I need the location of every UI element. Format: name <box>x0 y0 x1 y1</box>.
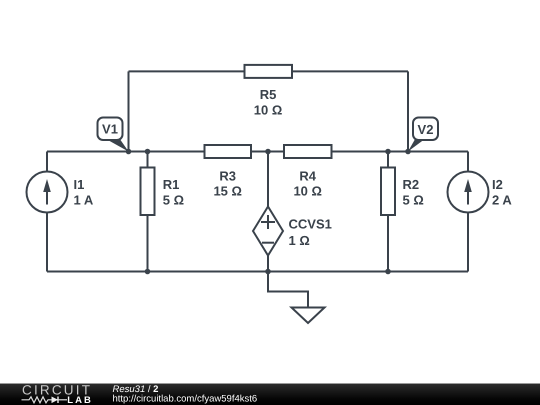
label CCVS1 value <box>289 217 332 249</box>
label R5 value <box>254 87 283 118</box>
node label V2 <box>408 118 438 152</box>
wire R2 branch <box>387 152 389 272</box>
svg-text:CCVS1: CCVS1 <box>289 217 332 232</box>
node V2 dot <box>405 149 411 155</box>
label R2 value <box>403 177 424 208</box>
svg-text:R1: R1 <box>163 177 180 192</box>
label I1 value <box>74 177 94 208</box>
svg-text:R3: R3 <box>219 168 236 183</box>
label R1 value <box>163 177 184 208</box>
wire main top rail <box>47 151 468 153</box>
svg-text:10 Ω: 10 Ω <box>254 103 283 118</box>
svg-text:LAB: LAB <box>67 395 93 405</box>
ground <box>292 308 325 324</box>
node R1 top junction <box>145 149 151 155</box>
node CCVS1 bottom junction <box>265 269 271 275</box>
svg-text:5 Ω: 5 Ω <box>403 193 424 208</box>
resistor R5 <box>245 65 293 78</box>
controlled source CCVS1 <box>253 207 283 256</box>
node R2 top junction <box>385 149 391 155</box>
label R3 value <box>213 168 242 198</box>
node label V1 <box>98 118 129 152</box>
wire top loop left riser <box>128 71 130 151</box>
wire right branch I2 <box>467 152 469 272</box>
wire CCVS1 branch <box>267 152 269 272</box>
svg-text:I2: I2 <box>492 177 503 192</box>
wire ground run <box>268 272 308 308</box>
svg-text:V1: V1 <box>102 122 118 137</box>
svg-text:1 Ω: 1 Ω <box>289 233 310 248</box>
footer logo CIRCUIT LAB <box>22 383 93 405</box>
wire R1 branch <box>147 152 149 272</box>
wire left branch I1 <box>46 152 48 272</box>
wire top loop right riser <box>407 71 409 151</box>
current source I1 <box>27 172 68 213</box>
resistor R3 <box>205 145 252 158</box>
svg-text:R4: R4 <box>299 168 316 183</box>
node R2 bottom junction <box>385 269 391 275</box>
svg-text:R5: R5 <box>260 87 277 102</box>
footer title Resu31 / 2 <box>113 384 159 395</box>
node R1 bottom junction <box>145 269 151 275</box>
resistor R4 <box>284 145 332 158</box>
resistor R1 <box>141 168 155 216</box>
node mid junction <box>265 149 271 155</box>
label R4 value <box>293 168 322 198</box>
label I2 value <box>492 177 512 208</box>
wire bottom rail <box>47 271 468 273</box>
svg-text:2 A: 2 A <box>492 193 512 208</box>
svg-text:1 A: 1 A <box>74 193 94 208</box>
svg-text:15 Ω: 15 Ω <box>213 183 242 198</box>
current source I2 <box>448 172 489 213</box>
svg-text:10 Ω: 10 Ω <box>293 183 322 198</box>
svg-text:I1: I1 <box>74 177 85 192</box>
footer bar <box>0 383 540 405</box>
node V1 dot <box>126 149 132 155</box>
footer url <box>113 394 258 405</box>
svg-text:http://circuitlab.com/cfyaw59f: http://circuitlab.com/cfyaw59f4kst6 <box>113 394 258 405</box>
resistor R2 <box>381 168 395 216</box>
wire top loop horizontal <box>129 70 409 72</box>
svg-text:5 Ω: 5 Ω <box>163 193 184 208</box>
svg-text:V2: V2 <box>418 122 434 137</box>
svg-text:R2: R2 <box>403 177 420 192</box>
